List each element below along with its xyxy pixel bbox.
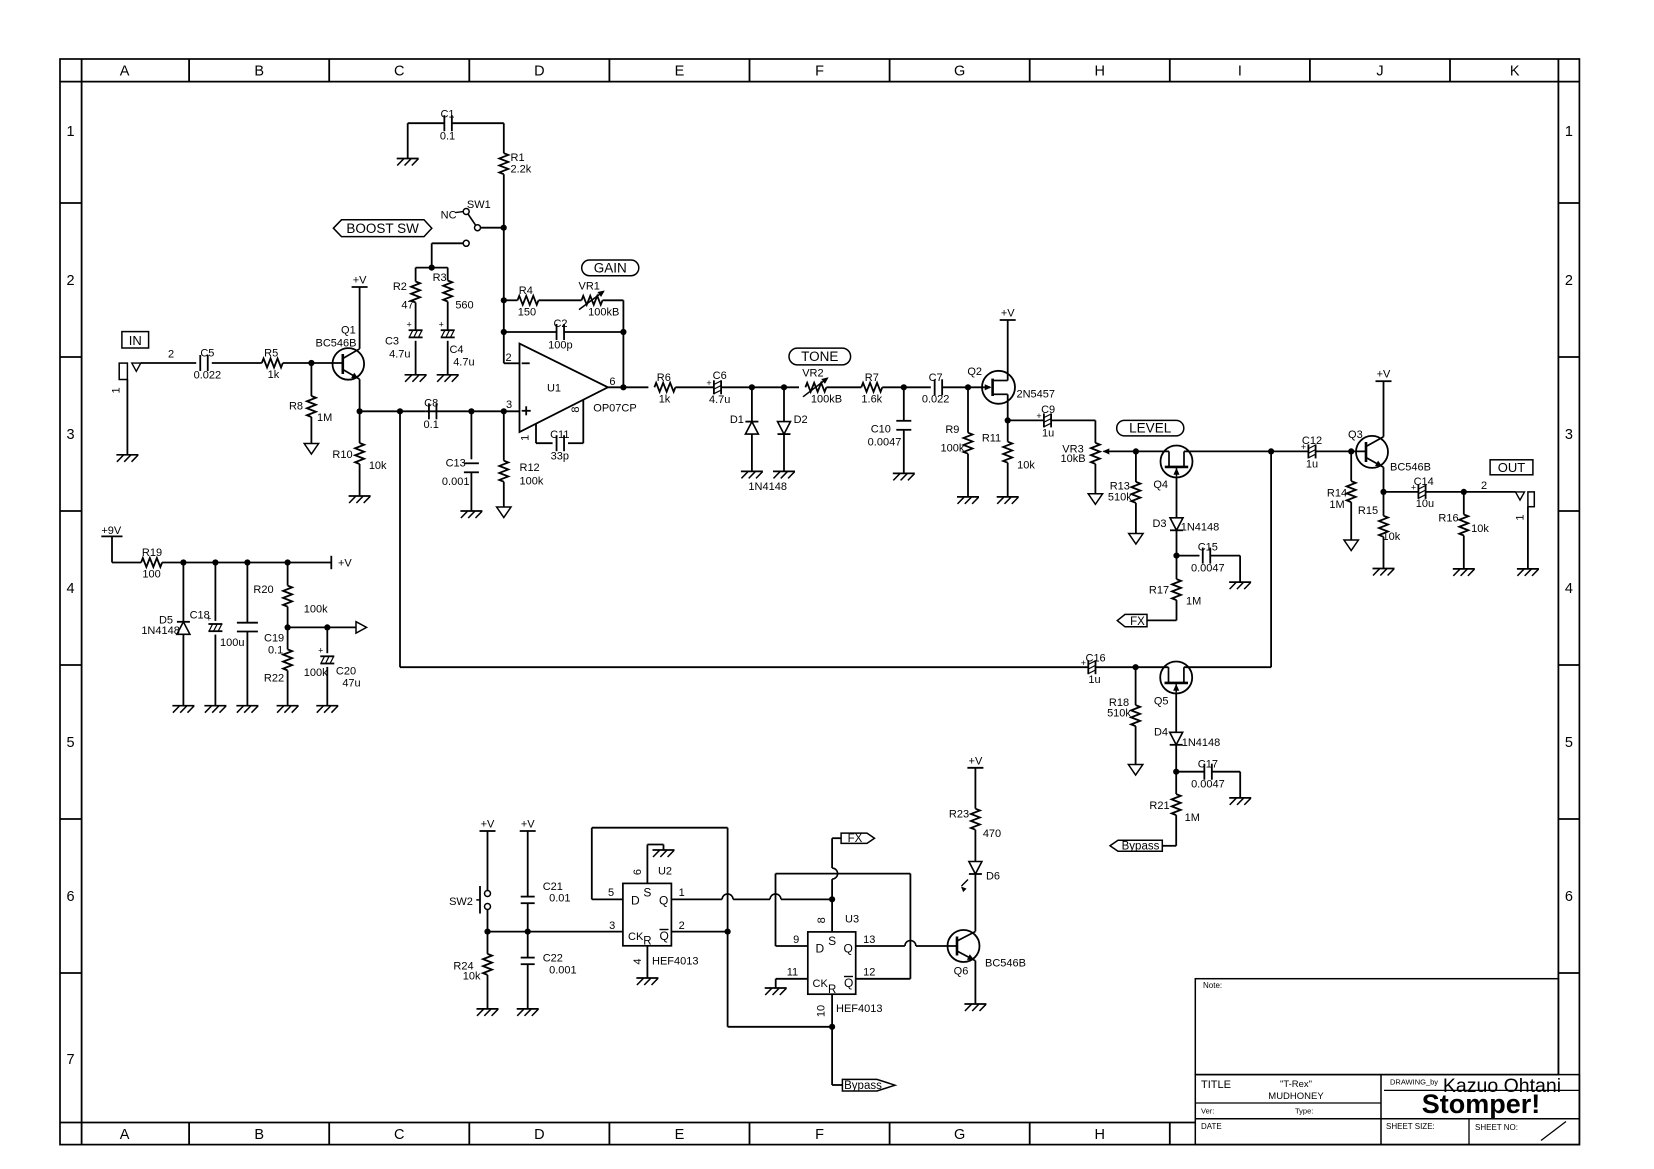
svg-text:C14: C14 [1414,476,1434,488]
svg-text:FX: FX [1130,616,1145,628]
wire R17 to FX [1147,600,1177,620]
svg-text:E: E [675,1127,685,1143]
wire R11 top [1007,420,1009,441]
svg-text:1: 1 [520,435,532,441]
IC U2 HEF4013 box [623,883,672,947]
svg-text:12: 12 [863,967,875,979]
svg-text:33p: 33p [551,451,569,463]
svg-text:C: C [394,1127,404,1143]
ground VR3 triangle [1088,494,1102,505]
resistor R17 [1149,579,1201,607]
wire C18 to ground [214,635,216,706]
diode D4 1N4148 [1154,727,1220,750]
TONE flag [789,348,851,365]
wire bypass link [400,411,1088,667]
resistor R16 [1438,513,1489,536]
resistor R14 [1327,481,1356,511]
wire C14 right [1426,491,1516,493]
resistor R11 [982,433,1036,472]
svg-text:6: 6 [632,869,644,875]
svg-text:+V: +V [1001,308,1015,320]
wire R16 drop [1463,492,1465,515]
svg-text:C16: C16 [1086,653,1106,665]
svg-text:47: 47 [401,300,413,312]
svg-text:+V: +V [353,275,367,287]
svg-text:U1: U1 [547,382,561,394]
wire R3 branch [432,268,448,281]
wire U3 S drop [831,899,833,932]
svg-text:R19: R19 [142,547,162,559]
resistor R10 [332,443,387,472]
svg-text:C4: C4 [449,344,463,356]
svg-text:100u: 100u [220,637,244,649]
svg-text:BOOST SW: BOOST SW [346,221,419,236]
wire C12 left [1271,450,1308,452]
svg-text:11: 11 [787,967,798,979]
wire D2 to ground [783,435,785,472]
ground D1 [741,471,763,478]
svg-text:C22: C22 [543,953,563,965]
svg-text:3: 3 [1565,427,1573,443]
label U2 [658,866,672,878]
BOOST SW flag [333,220,431,237]
switch SW2 momentary [449,886,490,914]
svg-text:2: 2 [168,349,174,361]
wire U2 R to ground [646,946,648,978]
svg-text:Q3: Q3 [1348,429,1363,441]
wire R21 top [1175,772,1177,794]
resistor R24 [453,954,492,983]
capacitor C13 [442,458,479,489]
wire R16 to ground [1463,536,1465,569]
wire jack sleeve down [126,380,128,455]
svg-text:IN: IN [129,333,142,348]
capacitor C1 [440,109,455,143]
svg-text:2: 2 [679,920,685,932]
svg-text:DRAWING_by: DRAWING_by [1390,1078,1438,1087]
svg-text:R8: R8 [289,401,303,413]
+9V terminal [101,525,122,537]
svg-text:BC546B: BC546B [985,958,1026,970]
svg-text:K: K [1510,64,1520,80]
title block DRAWING_by [1390,1078,1438,1087]
capacitor C4 electrolytic [439,320,475,369]
svg-text:510k: 510k [1107,708,1131,720]
svg-text:VR2: VR2 [802,368,823,380]
svg-text:R10: R10 [332,449,352,461]
svg-text:+: + [706,378,711,388]
svg-text:150: 150 [518,307,536,319]
node C8 branch [397,408,403,414]
wire R13 to ground [1135,503,1137,534]
transistor Q2 2N5457 [967,366,1055,404]
svg-text:100p: 100p [548,340,572,352]
svg-text:C1: C1 [440,109,454,121]
node D3/C15/R17 [1173,553,1179,559]
+V terminal Q1 [352,275,368,288]
ground C22 [517,1009,539,1016]
wire C13 top [470,411,472,459]
title block title text "T-Rex" [1280,1079,1312,1090]
svg-text:HEF4013: HEF4013 [652,956,698,968]
pin 10 label U3 [816,1005,828,1017]
svg-text:R12: R12 [520,462,540,474]
svg-text:C18: C18 [190,610,210,622]
+V terminal C21 [520,819,536,832]
node U2 Qbar / D [725,929,731,935]
pin 5 label U2 [608,887,614,899]
wire C9 to VR3 [1051,420,1095,443]
svg-text:"T-Rex": "T-Rex" [1280,1079,1312,1090]
svg-text:R4: R4 [519,285,533,297]
potentiometer VR3 [1060,443,1110,465]
node R12 [501,408,507,414]
wire C22 top [527,932,529,958]
svg-text:1M: 1M [1329,499,1344,511]
node Q1 emitter row [357,408,363,414]
wire C21 to node [527,903,529,931]
wire source to C9 [1008,419,1044,421]
pin 1 label U2 [679,887,685,899]
wire emitter row to C8 [360,410,426,412]
svg-text:1k: 1k [268,369,280,381]
title block author Kazuo Ohtani [1443,1075,1561,1097]
svg-text:13: 13 [863,934,875,946]
wire R11 to ground [1007,463,1009,497]
wire C1 left [408,122,445,124]
wire Q2 source down [1007,394,1009,420]
svg-text:OP07CP: OP07CP [593,403,636,415]
capacitor C11 [550,429,569,463]
svg-text:1: 1 [679,887,685,899]
pin 6 label U2 [632,869,644,875]
wire C6 to VR2 [721,386,799,388]
wire CK row to U2 [488,931,623,933]
LEVEL flag [1117,420,1184,436]
label 1N4148 D1 D2 [748,481,787,493]
wire Q4 right to node [1184,450,1271,452]
wire R24 top [487,932,489,954]
pin 13 label U3 [863,934,875,946]
wire C2 right [564,331,623,333]
svg-text:100: 100 [142,569,160,581]
svg-text:1: 1 [1565,124,1573,140]
svg-text:Q6: Q6 [954,966,969,978]
wire R22 top [287,627,289,649]
title block note box [1195,979,1558,1075]
node main/bypass branch [1268,448,1274,454]
ground R15 [1373,569,1395,576]
wire +V to C21 [527,831,529,897]
wire C15 right [1210,556,1240,583]
svg-text:Type:: Type: [1295,1107,1313,1116]
node Q2 source [1005,417,1011,423]
svg-text:R5: R5 [264,348,278,360]
svg-text:B: B [254,64,264,80]
resistor R5 [262,348,283,382]
svg-text:C5: C5 [200,348,214,360]
svg-text:10k: 10k [1471,523,1489,535]
svg-text:R9: R9 [945,424,959,436]
wire C2 left [504,331,557,333]
wire C7 to Q2 [942,386,990,388]
svg-text:C13: C13 [446,458,466,470]
wire R9 to ground [967,454,969,497]
node C16/R18 [1133,664,1139,670]
node R2/R3 split [429,265,435,271]
ground R10 [349,496,371,503]
svg-text:1M: 1M [317,412,332,424]
wire pin2 branch [504,362,520,364]
wire C22 to ground [527,964,529,1009]
svg-text:+V: +V [1377,369,1391,381]
ground U2 R [636,978,658,985]
pin 1 label [520,435,532,441]
pin 2 label input [168,349,174,361]
wire C17 left [1176,771,1204,773]
svg-text:Stomper!: Stomper! [1422,1089,1541,1119]
svg-text:1u: 1u [1042,428,1054,440]
svg-text:1: 1 [1515,515,1527,521]
wire R13 drop [1135,451,1137,482]
wire C12 right [1316,450,1366,452]
svg-text:1.6k: 1.6k [861,394,882,406]
ground R12 triangle [497,507,511,518]
wire Q1 collector to +V [359,287,361,349]
wire Qbar down [728,932,833,1027]
wire U2 Q out [671,894,832,900]
resistor R20 [253,584,328,616]
svg-text:100k: 100k [520,476,544,488]
svg-text:R6: R6 [657,372,671,384]
svg-text:C7: C7 [929,372,943,384]
svg-text:1: 1 [66,124,74,140]
node C2 right [620,329,626,335]
svg-text:100k: 100k [304,604,328,616]
resistor R8 [289,396,332,424]
wire C2 vert [622,332,624,387]
resistor R21 [1149,794,1200,824]
wire Q5 right [1184,666,1271,668]
svg-text:R21: R21 [1149,800,1169,812]
wire R14 drop [1350,451,1352,481]
svg-text:10k: 10k [463,971,481,983]
node C14/R16 [1461,489,1467,495]
wire R17 top [1176,556,1178,580]
wire main row to Q4 [1136,450,1169,452]
wire C15 left [1177,555,1200,557]
resistor R18 [1107,697,1140,726]
svg-text:1k: 1k [659,394,671,406]
title block MUDHONEY [1268,1091,1324,1102]
input jack J1 [111,363,141,393]
svg-text:R15: R15 [1358,505,1378,517]
title block SHEET NO [1475,1123,1518,1132]
svg-text:1M: 1M [1185,812,1200,824]
svg-text:5: 5 [66,735,74,751]
node pin6/C2 [620,384,626,390]
svg-text:C10: C10 [871,424,891,436]
svg-text:Note:: Note: [1203,981,1222,990]
wire Q1 emitter down [359,379,361,411]
svg-text:2.2k: 2.2k [511,164,532,176]
potentiometer VR1 [578,281,619,319]
svg-text:Bypass: Bypass [1122,841,1160,853]
capacitor C10 [868,421,912,449]
ground C17 [1229,798,1251,805]
svg-text:3: 3 [506,399,512,411]
ground C13 [460,511,482,518]
svg-text:R11: R11 [982,433,1001,445]
node FX/U3 S [829,896,835,902]
diode D1 1N4148 [730,414,759,434]
op-amp U1 OP07CP [505,344,636,432]
svg-text:R22: R22 [264,673,284,685]
wire R8 to ground [310,417,312,444]
resistor R3 [433,272,474,312]
node SW2/R24 [484,929,490,935]
Bypass flag left [1110,840,1162,853]
ground U3 CK [765,988,787,995]
svg-text:CK: CK [813,978,829,990]
svg-text:5: 5 [1565,735,1573,751]
ground R13 triangle [1129,534,1143,545]
wire R1 top [503,123,505,153]
+V terminal R23 [967,755,983,768]
pin 8 label U3 [816,917,828,923]
wire R18 to ground [1135,726,1137,764]
diode D5 1N4148 [141,615,190,638]
wire emitter to C14 [1384,491,1419,493]
transistor Q6 BC546B [948,930,1026,978]
FX flag right [841,833,874,845]
IC U3 HEF4013 box [808,932,856,996]
title block DATE [1201,1122,1222,1131]
capacitor C21 [521,881,571,905]
svg-text:100kB: 100kB [588,307,619,319]
pin 2 label output [1481,480,1487,492]
svg-text:SW2: SW2 [449,896,473,908]
wire R24 to ground [487,975,489,1009]
wire +9V down [112,536,141,562]
node C12/R14 [1348,448,1354,454]
svg-text:R1: R1 [511,152,525,164]
border column letters A-K [120,64,1520,1144]
svg-text:CK: CK [628,931,644,943]
resistor R12 [499,461,544,488]
svg-text:1N4148: 1N4148 [1181,522,1220,534]
svg-text:R16: R16 [1438,513,1458,525]
svg-text:4.7u: 4.7u [389,349,410,361]
wire Q3 emitter down [1383,467,1385,492]
svg-text:BC546B: BC546B [1390,462,1431,474]
svg-text:100k: 100k [940,443,964,455]
wire D5 drop [182,563,184,622]
capacitor C5 [194,348,222,382]
wire R18 drop [1135,667,1137,705]
border row dividers [60,203,1579,973]
+V terminal Q3 [1376,369,1392,382]
svg-text:6: 6 [609,376,615,388]
svg-text:I: I [1238,64,1242,80]
diode D2 1N4148 [778,414,808,434]
svg-text:D: D [534,64,544,80]
node SW1/R1 [501,225,507,231]
svg-text:F: F [815,1127,824,1143]
wire C3 to ground [415,341,417,375]
svg-text:D3: D3 [1152,518,1166,530]
wire U2 Qbar out [671,931,727,933]
svg-text:0.1: 0.1 [424,419,439,431]
svg-text:Bypass: Bypass [844,1080,882,1092]
svg-text:D: D [534,1127,544,1143]
svg-text:TONE: TONE [801,349,838,364]
svg-text:0.001: 0.001 [442,476,470,488]
svg-text:4.7u: 4.7u [453,357,474,369]
svg-text:R2: R2 [393,281,407,293]
svg-text:4: 4 [632,958,644,964]
wire R10 bottom [359,464,361,496]
node C10 [901,384,907,390]
wire pin6 output [607,386,649,388]
pin 4 label U2 [632,958,644,964]
ground C10 [893,473,915,480]
svg-text:F: F [815,64,824,80]
ground R18 triangle [1128,765,1142,776]
ground D5 [172,706,194,713]
svg-text:BC546B: BC546B [316,338,357,350]
wire R4 to VR1 [539,299,582,301]
capacitor C19 [237,623,284,657]
svg-text:G: G [954,64,965,80]
wire Q2 drain to +V [1007,320,1009,381]
wire VR1 right [603,300,624,332]
svg-text:D2: D2 [794,414,808,426]
svg-text:3: 3 [609,920,615,932]
svg-text:D: D [816,942,825,956]
wire C10 to ground [903,430,905,474]
wire C16 to Q5 [1096,666,1169,668]
svg-text:VR1: VR1 [578,281,599,293]
svg-text:0.0047: 0.0047 [868,437,902,449]
svg-text:R14: R14 [1327,488,1347,500]
ground R14 triangle [1344,540,1358,551]
svg-text:10k: 10k [1383,531,1401,543]
wire D5 to ground [182,634,184,705]
wire U3 Q out [856,941,957,947]
wire D4 to node [1175,745,1177,772]
ground C1 [397,159,419,166]
ground C4 [437,375,459,382]
wire R15 top [1383,492,1385,516]
svg-text:C11: C11 [550,429,569,441]
capacitor C9 electrolytic [1036,404,1055,440]
svg-text:1u: 1u [1306,459,1318,471]
node VR3/R13 [1133,448,1139,454]
svg-text:Q2: Q2 [967,366,982,378]
svg-text:D1: D1 [730,414,744,426]
svg-text:1N4148: 1N4148 [141,625,180,637]
svg-text:B: B [254,1127,264,1143]
resistor R1 [499,152,531,176]
node C19 rail [244,559,250,565]
ground R22 [277,706,299,713]
capacitor C18 electrolytic [190,610,245,650]
svg-text:FX: FX [848,833,863,845]
pin 12 label U3 [863,967,875,979]
node R5/R8/Q1 [308,360,314,366]
svg-text:Q: Q [660,929,669,943]
